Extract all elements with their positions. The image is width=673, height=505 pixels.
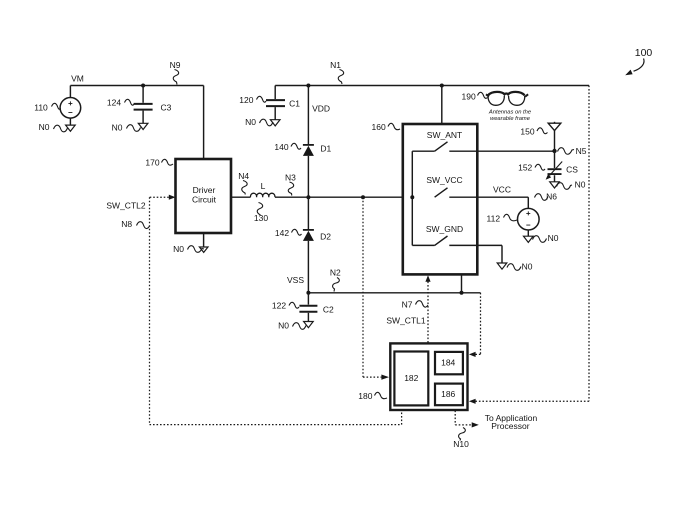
svg-text:Processor: Processor [491, 421, 529, 431]
svg-text:180: 180 [358, 391, 372, 401]
ground N0 (under 110) [66, 125, 76, 131]
svg-text:C1: C1 [289, 99, 300, 109]
svg-text:142: 142 [275, 228, 289, 238]
svg-text:VCC: VCC [493, 185, 511, 195]
node N10 [453, 439, 469, 449]
label 190 [462, 92, 476, 102]
switch SW_VCC [426, 175, 462, 185]
wire dashed VSS sense to 184 [476, 293, 481, 355]
junction bus/N3 [410, 195, 414, 199]
inductor L 130 [250, 193, 275, 197]
wire VDD vertical [307, 86, 309, 145]
svg-text:130: 130 [254, 213, 268, 223]
node N2 [330, 268, 341, 278]
driver circuit box 170 [176, 159, 232, 233]
wire VSS rail N2 [308, 292, 480, 294]
label 124 [107, 98, 121, 108]
label CS [566, 165, 578, 175]
label 120 [239, 95, 253, 105]
wire dashed node sense to 182 [363, 197, 381, 377]
switch SW_ANT [427, 130, 462, 140]
ground N0 (under C2) [304, 322, 314, 328]
capacitor C1 [266, 86, 285, 120]
svg-text:150: 150 [520, 126, 534, 136]
svg-text:Circuit: Circuit [192, 195, 217, 205]
svg-text:N3: N3 [285, 173, 296, 183]
label D1 [320, 143, 331, 153]
svg-text:N0: N0 [112, 122, 123, 132]
block 186 [435, 384, 463, 406]
svg-text:N10: N10 [453, 439, 469, 449]
svg-text:190: 190 [462, 92, 476, 102]
diode D1 [303, 145, 314, 197]
svg-text:N0: N0 [39, 122, 50, 132]
block 184 [435, 352, 463, 374]
label 142 [275, 228, 289, 238]
svg-text:CS: CS [566, 165, 578, 175]
svg-text:160: 160 [372, 122, 386, 132]
svg-text:124: 124 [107, 98, 121, 108]
svg-text:N8: N8 [121, 219, 132, 229]
svg-text:N0: N0 [173, 244, 184, 254]
svg-text:N0: N0 [245, 117, 256, 127]
controller box 180 [390, 343, 467, 410]
svg-text:112: 112 [487, 214, 501, 224]
figure label 100 with arrow [635, 47, 653, 59]
svg-text:N1: N1 [330, 60, 341, 70]
label C1 [289, 99, 300, 109]
glasses caption [488, 109, 532, 122]
label 170 [145, 158, 159, 168]
svg-text:182: 182 [404, 373, 418, 383]
label 112 [487, 214, 501, 224]
wire rail to switch box [441, 86, 443, 125]
junction N2/switch stub [460, 291, 464, 295]
svg-text:D2: D2 [320, 232, 331, 242]
svg-text:Driver: Driver [193, 185, 216, 195]
node N4 [238, 171, 249, 181]
ground N0 (under CS) [550, 182, 560, 188]
node N9 [170, 60, 181, 70]
junction N1/switch branch [440, 84, 444, 88]
label 180 [358, 391, 372, 401]
svg-text:wearable frame: wearable frame [490, 116, 531, 122]
junction node VM/C3 [141, 84, 145, 88]
svg-text:C2: C2 [323, 305, 334, 315]
svg-text:186: 186 [441, 389, 455, 399]
svg-text:170: 170 [145, 158, 159, 168]
svg-text:D1: D1 [320, 143, 331, 153]
svg-text:SW_CTL2: SW_CTL2 [106, 200, 145, 210]
svg-text:N2: N2 [330, 268, 341, 278]
wire VCC drop [527, 197, 529, 208]
label 122 [272, 301, 286, 311]
wire switch box to VSS rail [461, 274, 463, 292]
switch box 160 [403, 124, 478, 274]
node N8 [121, 219, 132, 229]
label C3 [160, 103, 171, 113]
label 150 [520, 126, 534, 136]
ground N0 (under C1) [270, 120, 280, 126]
wire dashed to application processor [455, 411, 472, 425]
node SW_CTL2 label [106, 200, 145, 210]
svg-text:SW_CTL1: SW_CTL1 [386, 316, 425, 326]
wire top rail N1 [275, 85, 589, 87]
label 160 [372, 122, 386, 132]
svg-text:SW_ANT: SW_ANT [427, 130, 462, 140]
svg-text:VDD: VDD [312, 103, 330, 113]
svg-text:110: 110 [34, 103, 48, 113]
voltage source 110 [60, 86, 81, 126]
svg-text:N4: N4 [238, 171, 249, 181]
svg-text:122: 122 [272, 301, 286, 311]
diode D2 [303, 197, 314, 293]
label 140 [274, 142, 288, 152]
node N1 label [330, 60, 341, 70]
node VDD label [312, 103, 330, 113]
svg-text:L: L [261, 181, 266, 191]
svg-text:184: 184 [441, 358, 455, 368]
switch SW_GND [426, 224, 463, 234]
wire VM top-left horizontal [70, 85, 203, 87]
junction N2/D2 [306, 291, 310, 295]
svg-text:N0: N0 [548, 233, 559, 243]
node N5 [552, 149, 556, 153]
svg-text:SW_VCC: SW_VCC [426, 175, 462, 185]
svg-text:120: 120 [239, 95, 253, 105]
svg-text:N9: N9 [170, 60, 181, 70]
ground N0 (under 112) [524, 236, 534, 242]
svg-text:N0: N0 [278, 321, 289, 331]
label D2 [320, 232, 331, 242]
svg-text:N0: N0 [522, 261, 533, 271]
label 110 [34, 103, 48, 113]
svg-text:Antennas on the: Antennas on the [488, 109, 532, 115]
label C2 [323, 305, 334, 315]
label 152 [518, 163, 532, 173]
node N6 [546, 192, 557, 202]
capacitor C2 [299, 293, 317, 322]
wire dashed rail to 186 [476, 86, 590, 402]
node VSS label [287, 275, 304, 285]
junction node N3/diodes [306, 195, 310, 199]
ground N0 (under driver) [203, 233, 205, 247]
ground N0 (under C3) [138, 123, 148, 129]
svg-text:100: 100 [635, 47, 653, 59]
node SW_CTL1 label [386, 316, 425, 326]
node N7 [402, 299, 413, 309]
node N3 [285, 173, 296, 183]
variable capacitor CS 152 [546, 151, 563, 182]
voltage source 112 [518, 208, 540, 236]
svg-text:SW_GND: SW_GND [426, 224, 463, 234]
junction N1/VDD branch [306, 84, 310, 88]
block 182 [394, 352, 428, 406]
junction node N3 sense tap [361, 195, 365, 199]
svg-text:152: 152 [518, 163, 532, 173]
wire driver output [231, 196, 251, 198]
wire SW_CTL1 dashed with arrow into switch box [425, 275, 430, 282]
svg-text:N0: N0 [575, 180, 586, 190]
capacitor C3 [134, 86, 153, 124]
svg-text:C3: C3 [160, 103, 171, 113]
svg-text:N5: N5 [576, 146, 587, 156]
antenna 150 [548, 122, 561, 151]
wire internal bus [411, 151, 413, 245]
svg-text:140: 140 [274, 142, 288, 152]
glasses 190 (antennas on wearable frame icon) [486, 92, 528, 105]
wire main node line N3 [275, 196, 435, 198]
wire driver input vertical [203, 86, 205, 160]
node VCC label [493, 185, 511, 195]
ground N0 (SW_GND) [501, 245, 503, 263]
svg-text:VM: VM [71, 74, 84, 84]
svg-text:N7: N7 [402, 299, 413, 309]
wire SW_CTL2 dashed path with arrow into driver [169, 195, 176, 200]
svg-text:VSS: VSS [287, 275, 304, 285]
